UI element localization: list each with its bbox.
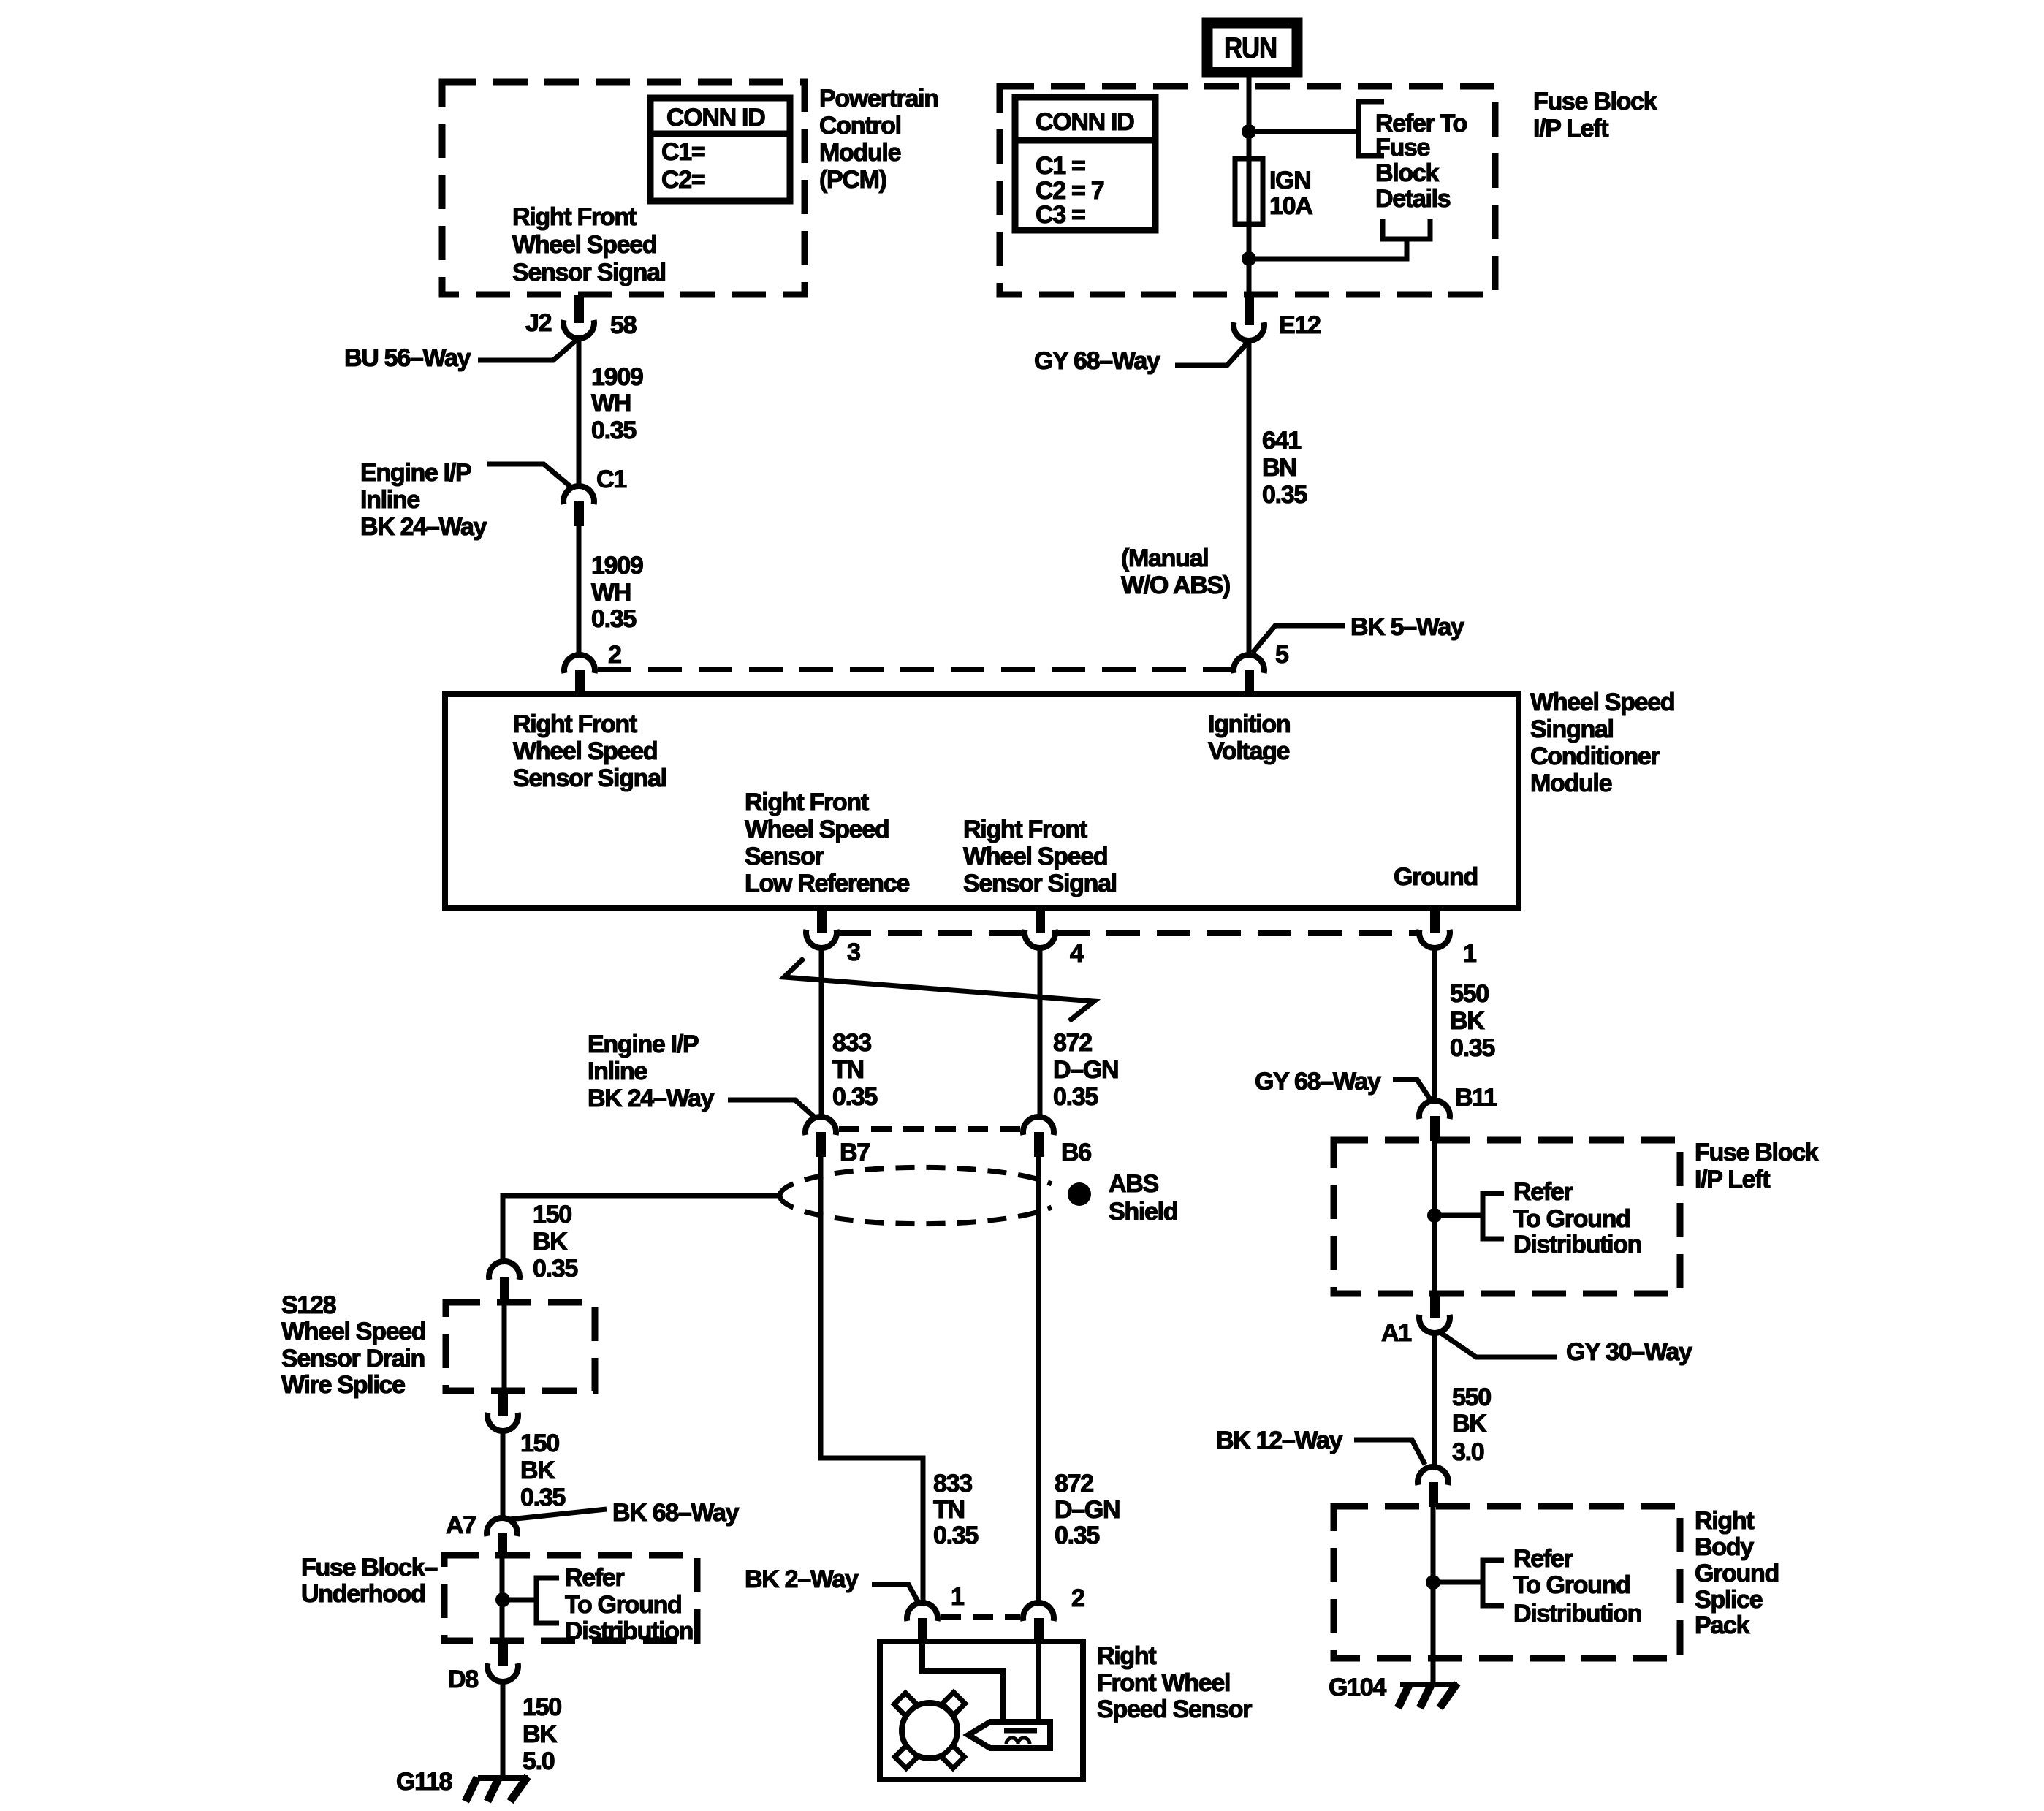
svg-text:872: 872 [1055, 1470, 1093, 1497]
svg-text:0.35: 0.35 [591, 605, 636, 633]
svg-text:Sensor Signal: Sensor Signal [963, 870, 1117, 897]
svg-text:Wire Splice: Wire Splice [281, 1371, 405, 1399]
svg-text:BK 24–Way: BK 24–Way [360, 513, 487, 541]
svg-text:Right Front: Right Front [512, 203, 637, 231]
svg-text:3: 3 [847, 938, 860, 966]
svg-text:5: 5 [1275, 641, 1288, 669]
svg-text:Fuse Block: Fuse Block [1695, 1139, 1819, 1166]
svg-text:Module: Module [1530, 770, 1612, 797]
svg-text:BK 5–Way: BK 5–Way [1350, 613, 1464, 641]
svg-text:G118: G118 [396, 1768, 452, 1796]
svg-text:I/P Left: I/P Left [1695, 1166, 1770, 1193]
svg-text:Engine I/P: Engine I/P [588, 1030, 699, 1058]
svg-text:833: 833 [933, 1470, 972, 1497]
svg-text:CONN ID: CONN ID [666, 104, 765, 132]
svg-text:D8: D8 [448, 1666, 478, 1693]
svg-text:Distribution: Distribution [1513, 1231, 1641, 1258]
svg-text:Fuse Block–: Fuse Block– [301, 1554, 437, 1582]
svg-text:C2=: C2= [661, 166, 705, 194]
svg-text:550: 550 [1450, 980, 1489, 1008]
svg-text:ABS: ABS [1109, 1170, 1159, 1198]
svg-text:Splice: Splice [1695, 1586, 1763, 1614]
svg-text:GY 68–Way: GY 68–Way [1034, 347, 1160, 375]
svg-text:C1 =: C1 = [1036, 152, 1085, 180]
svg-text:Right Front: Right Front [513, 710, 637, 738]
svg-text:Sensor Drain: Sensor Drain [281, 1345, 425, 1373]
svg-text:J2: J2 [525, 309, 552, 337]
svg-text:872: 872 [1053, 1029, 1092, 1057]
svg-text:Right: Right [1695, 1507, 1754, 1535]
svg-text:150: 150 [523, 1693, 561, 1721]
svg-text:(Manual: (Manual [1121, 544, 1208, 572]
svg-text:To Ground: To Ground [1513, 1205, 1630, 1233]
svg-text:150: 150 [533, 1201, 571, 1229]
svg-text:CONN ID: CONN ID [1036, 108, 1134, 136]
svg-text:0.35: 0.35 [832, 1083, 877, 1111]
svg-text:Distribution: Distribution [565, 1617, 693, 1645]
svg-text:IGN: IGN [1269, 167, 1311, 194]
svg-text:Wheel Speed: Wheel Speed [745, 816, 889, 843]
svg-text:Distribution: Distribution [1513, 1600, 1641, 1628]
svg-text:Pack: Pack [1695, 1611, 1750, 1639]
svg-text:Speed Sensor: Speed Sensor [1097, 1696, 1252, 1723]
svg-text:2: 2 [1071, 1584, 1084, 1612]
svg-text:C1=: C1= [661, 138, 705, 166]
svg-text:833: 833 [832, 1029, 871, 1057]
svg-text:GY 30–Way: GY 30–Way [1566, 1338, 1692, 1366]
svg-text:TN: TN [933, 1496, 965, 1524]
svg-text:BK: BK [523, 1720, 558, 1748]
svg-text:E12: E12 [1279, 311, 1321, 339]
svg-text:10A: 10A [1269, 192, 1312, 220]
svg-text:Wheel Speed: Wheel Speed [513, 737, 657, 765]
svg-text:0.35: 0.35 [1450, 1034, 1494, 1062]
svg-text:C3 =: C3 = [1036, 201, 1085, 229]
svg-text:Wheel Speed: Wheel Speed [512, 231, 656, 259]
svg-text:Engine I/P: Engine I/P [360, 459, 471, 487]
svg-text:Low Reference: Low Reference [745, 870, 909, 897]
svg-text:RUN: RUN [1224, 32, 1277, 64]
svg-text:BK: BK [1450, 1007, 1485, 1035]
svg-text:Inline: Inline [360, 486, 419, 514]
svg-text:Right: Right [1097, 1642, 1156, 1670]
svg-text:Inline: Inline [588, 1058, 647, 1085]
svg-text:1: 1 [1463, 940, 1476, 968]
svg-text:0.35: 0.35 [591, 417, 636, 444]
svg-text:Module: Module [819, 139, 901, 167]
svg-text:BU 56–Way: BU 56–Way [344, 344, 471, 372]
svg-text:Refer: Refer [565, 1564, 624, 1592]
svg-text:BK 68–Way: BK 68–Way [612, 1499, 740, 1527]
svg-text:BN: BN [1262, 454, 1296, 482]
svg-text:WH: WH [591, 390, 631, 417]
svg-text:Underhood: Underhood [301, 1580, 425, 1608]
svg-text:1: 1 [951, 1583, 964, 1611]
svg-text:0.35: 0.35 [520, 1484, 565, 1511]
svg-text:B7: B7 [840, 1139, 870, 1166]
svg-text:5.0: 5.0 [523, 1747, 555, 1775]
svg-text:Wheel Speed: Wheel Speed [1530, 688, 1674, 716]
svg-text:BK: BK [533, 1228, 568, 1256]
svg-text:58: 58 [610, 311, 637, 339]
svg-text:D–GN: D–GN [1055, 1496, 1120, 1524]
svg-text:Powertrain: Powertrain [819, 85, 938, 113]
svg-text:Sensor: Sensor [745, 843, 824, 870]
svg-text:I/P Left: I/P Left [1533, 115, 1608, 143]
svg-text:Refer: Refer [1513, 1545, 1573, 1573]
svg-text:2: 2 [608, 641, 621, 669]
svg-text:3.0: 3.0 [1452, 1438, 1484, 1466]
svg-text:0.35: 0.35 [1262, 481, 1307, 509]
svg-text:S128: S128 [281, 1291, 336, 1319]
svg-text:G104: G104 [1329, 1674, 1386, 1701]
svg-text:Conditioner: Conditioner [1530, 743, 1660, 770]
svg-text:Details: Details [1375, 185, 1451, 213]
svg-text:Block: Block [1375, 159, 1439, 187]
svg-text:To Ground: To Ground [1513, 1571, 1630, 1599]
svg-text:Control: Control [819, 112, 901, 140]
svg-text:Singnal: Singnal [1530, 715, 1614, 743]
svg-text:Wheel Speed: Wheel Speed [281, 1318, 425, 1345]
svg-text:WH: WH [591, 579, 631, 607]
svg-text:Right Front: Right Front [963, 816, 1087, 843]
svg-text:A1: A1 [1381, 1319, 1411, 1347]
svg-text:Ground: Ground [1394, 863, 1478, 891]
svg-text:Refer: Refer [1513, 1178, 1573, 1206]
svg-text:Right Front: Right Front [745, 789, 869, 816]
svg-text:1909: 1909 [591, 552, 643, 580]
svg-text:A7: A7 [446, 1511, 476, 1539]
svg-text:Ignition: Ignition [1208, 710, 1290, 738]
svg-text:0.35: 0.35 [533, 1255, 577, 1283]
svg-text:Sensor Signal: Sensor Signal [513, 764, 666, 792]
svg-text:Body: Body [1695, 1533, 1754, 1561]
svg-text:BK 12–Way: BK 12–Way [1216, 1427, 1343, 1454]
svg-text:550: 550 [1452, 1383, 1491, 1411]
svg-text:TN: TN [832, 1056, 864, 1084]
svg-text:BK 24–Way: BK 24–Way [588, 1085, 715, 1112]
svg-text:GY 68–Way: GY 68–Way [1255, 1068, 1381, 1096]
svg-text:150: 150 [520, 1430, 559, 1457]
svg-text:Shield: Shield [1109, 1198, 1177, 1226]
svg-text:(PCM): (PCM) [819, 166, 886, 194]
svg-text:1909: 1909 [591, 363, 643, 391]
svg-text:0.35: 0.35 [1053, 1083, 1098, 1111]
svg-text:Fuse Block: Fuse Block [1533, 88, 1657, 115]
svg-text:BK 2–Way: BK 2–Way [745, 1565, 859, 1593]
svg-text:Fuse: Fuse [1375, 134, 1430, 162]
svg-text:B11: B11 [1455, 1084, 1497, 1112]
svg-text:Sensor Signal: Sensor Signal [512, 259, 666, 286]
svg-text:0.35: 0.35 [933, 1522, 978, 1549]
svg-text:D–GN: D–GN [1053, 1056, 1118, 1084]
svg-text:C1: C1 [596, 466, 626, 493]
svg-text:Ground: Ground [1695, 1560, 1779, 1587]
svg-text:Front Wheel: Front Wheel [1097, 1669, 1230, 1697]
svg-text:0.35: 0.35 [1055, 1522, 1099, 1549]
svg-text:Voltage: Voltage [1208, 737, 1290, 765]
svg-text:641: 641 [1262, 427, 1301, 455]
svg-text:BK: BK [1452, 1410, 1487, 1438]
svg-text:4: 4 [1070, 940, 1084, 968]
svg-text:Wheel Speed: Wheel Speed [963, 843, 1107, 870]
svg-text:B6: B6 [1061, 1139, 1091, 1166]
svg-text:BK: BK [520, 1457, 555, 1484]
svg-text:To Ground: To Ground [565, 1591, 682, 1619]
svg-text:W/O ABS): W/O ABS) [1121, 572, 1230, 599]
